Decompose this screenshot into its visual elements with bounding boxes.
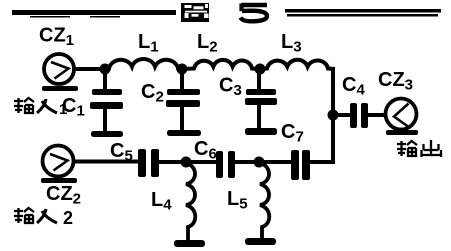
capacitor C7 xyxy=(291,150,310,180)
junction node D xyxy=(328,110,339,121)
svg-text:CZ2: CZ2 xyxy=(46,183,81,208)
title character 图 xyxy=(181,3,209,22)
wire node E to C6 xyxy=(186,160,216,164)
inductor L2 xyxy=(182,60,260,69)
junction node B xyxy=(177,64,188,75)
svg-text:L4: L4 xyxy=(151,189,172,214)
junction node A xyxy=(100,64,111,75)
title rule right xyxy=(285,9,441,17)
capacitor C1 xyxy=(90,71,123,131)
wire right vertical from L3 down to C7 xyxy=(331,67,335,163)
svg-text:1: 1 xyxy=(59,101,67,118)
connector CZ2 xyxy=(43,146,74,177)
svg-text:C5: C5 xyxy=(110,140,133,165)
connector CZ1 xyxy=(44,54,74,84)
chassis ground bar of CZ1 xyxy=(42,86,78,91)
wire CZ1 to node A xyxy=(74,67,106,71)
title rule left xyxy=(12,10,176,18)
svg-text:2: 2 xyxy=(63,208,73,228)
svg-text:C3: C3 xyxy=(219,75,242,100)
svg-text:L3: L3 xyxy=(281,31,302,56)
ground of C2 xyxy=(167,130,201,136)
svg-text:C7: C7 xyxy=(281,121,304,146)
capacitor C3 xyxy=(245,71,277,128)
ground of L4 xyxy=(174,240,205,247)
wire C5 to node E xyxy=(159,160,186,164)
svg-text:L5: L5 xyxy=(227,188,248,213)
svg-text:C2: C2 xyxy=(141,81,164,106)
wire C4 to CZ3 xyxy=(368,113,386,117)
svg-text:L1: L1 xyxy=(138,31,159,56)
capacitor C2 xyxy=(166,71,200,130)
capacitor C5 xyxy=(138,149,159,177)
inductor L5 xyxy=(260,163,269,238)
junction node C xyxy=(255,64,266,75)
capacitor C6 xyxy=(216,151,235,178)
wire node D to C4 xyxy=(333,113,350,117)
svg-text:L2: L2 xyxy=(197,31,218,56)
svg-text:CZ3: CZ3 xyxy=(378,69,413,94)
inductor L3 xyxy=(260,60,335,69)
inductor L1 xyxy=(105,59,182,69)
junction node E xyxy=(181,157,192,168)
chassis ground bar of CZ3 xyxy=(386,130,418,135)
connector CZ3 xyxy=(386,99,417,130)
svg-text:C4: C4 xyxy=(342,74,365,99)
wire CZ2 to C5 xyxy=(73,160,138,164)
inductor L4 xyxy=(186,163,195,240)
label 输出 output xyxy=(397,140,442,157)
ground of C1 xyxy=(91,131,123,137)
junction node F xyxy=(254,157,265,168)
capacitor C4 xyxy=(350,103,368,128)
ground of L5 xyxy=(245,238,276,245)
label 输入2 input2 xyxy=(14,208,73,228)
wire C7 to right vertical xyxy=(310,160,335,164)
wire C6 to node F xyxy=(235,160,259,164)
label 输入1 input1 xyxy=(14,98,67,118)
chassis ground bar of CZ2 xyxy=(41,178,77,183)
ground of C3 xyxy=(245,128,277,135)
title numeral 5 xyxy=(241,4,268,22)
wire node F to C7 xyxy=(259,160,291,164)
svg-text:C6: C6 xyxy=(194,138,217,163)
svg-text:CZ1: CZ1 xyxy=(39,25,74,50)
